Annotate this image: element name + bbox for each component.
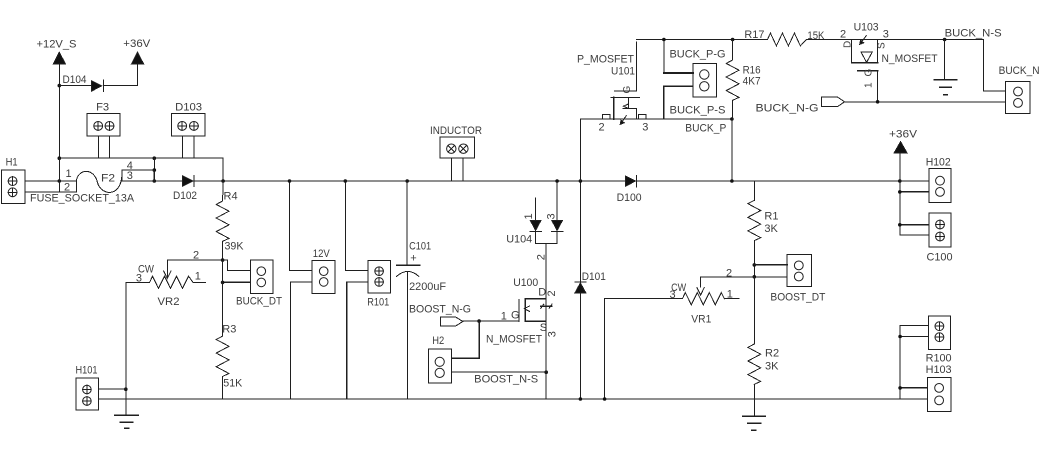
svg-text:BUCK_DT: BUCK_DT [236,295,282,307]
power +12V_S [37,39,77,64]
wire INDUCTOR pin1 [450,158,452,181]
wire BUCK_P down to bus [731,119,733,181]
wire F3 pin1 [98,136,100,158]
resistor R4 39K [216,181,244,260]
wire R100 pin1 [900,325,928,327]
wire fuse pin4 drop [153,158,155,181]
svg-text:BUCK_P: BUCK_P [685,122,726,134]
wire H1 pin2 [25,191,59,193]
svg-text:S: S [877,42,888,49]
svg-text:N_MOSFET: N_MOSFET [882,53,938,65]
svg-text:D101: D101 [582,271,606,283]
wire D102 cathode to main bus [194,180,290,182]
resistor R17 15K [744,29,845,46]
svg-text:+36V: +36V [889,128,918,140]
wire R1 to R2 [753,277,755,344]
svg-text:P_MOSFET: P_MOSFET [577,54,634,66]
node junction R4/BUCK_DT [221,258,225,262]
svg-text:2: 2 [536,254,548,260]
wire upper distribution line [59,158,223,181]
svg-text:3: 3 [546,213,558,219]
svg-text:BUCK_P-S: BUCK_P-S [670,105,726,117]
svg-text:BUCK_N: BUCK_N [999,65,1040,77]
svg-text:N_MOSFET: N_MOSFET [486,334,542,346]
wire BUCK_P-G pin1 riser [663,40,665,74]
svg-text:F2: F2 [101,173,115,185]
wire R101 column upper [345,181,368,271]
wire C100 pin2 elbow [900,234,929,236]
node junction H103 pin1 [898,386,902,390]
wire D101 column [579,181,581,399]
svg-text:3: 3 [642,122,648,134]
svg-text:H2: H2 [432,335,444,347]
wire H102 pin2 [900,191,929,193]
svg-text:R17: R17 [744,29,764,41]
svg-text:H101: H101 [76,365,98,377]
svg-text:R4: R4 [224,190,238,202]
svg-text:D100: D100 [617,192,642,204]
svg-text:D104: D104 [63,74,87,86]
svg-text:BUCK_N-G: BUCK_N-G [756,103,819,115]
wire H103 pin2 [900,398,927,400]
node junction U103 gate [876,100,880,104]
node junction at 59,181 [58,179,62,183]
wire U100 gate [479,320,519,322]
wire U101 source-drain line [580,118,732,120]
svg-text:D102: D102 [173,190,197,202]
svg-text:+36V: +36V [123,38,151,50]
svg-text:1: 1 [195,271,201,283]
svg-text:3K: 3K [764,223,778,235]
wire U100 source to bottom bus [545,321,547,399]
wire BUCK_N-S to BUCK_N pin1 [984,40,1006,92]
svg-text:H103: H103 [926,364,952,376]
ground symbol right [743,416,765,430]
node junction BUCK_P [730,117,734,121]
svg-text:G: G [864,69,875,77]
wire D104 anode [59,85,91,87]
svg-text:R3: R3 [222,324,236,336]
svg-text:D: D [538,286,546,298]
node junction VR1 pin3 at bus [603,397,607,401]
wire R4 to R3 [222,260,224,336]
resistor R1 3K [748,181,779,277]
node junction BOOST_DT pin1 [753,263,757,267]
node junction at 154,181 [153,179,157,183]
wire 12V pin2 to bottom bus [290,282,312,399]
wire fuse to D102 [154,180,183,182]
diode D101 [575,271,606,293]
diode D102 [173,175,197,202]
svg-text:BUCK_P-G: BUCK_P-G [670,49,726,61]
svg-text:BOOST_N-G: BOOST_N-G [409,304,471,316]
node junction +36V at bus [898,179,902,183]
svg-text:3: 3 [136,272,142,284]
wire VR1 wiper [701,277,755,287]
wire H102 pin1 [900,180,929,182]
wire fuse left leg [58,158,60,192]
connector H103 [927,377,951,411]
node junction BOOST_N-S [544,370,548,374]
node junction U104 pin3 at bus [555,179,559,183]
resistor R2 3K [748,344,779,416]
wire gate rail top [636,39,767,41]
wire ground lead right [944,40,946,80]
n-mosfet U100 [486,277,559,346]
svg-text:15K: 15K [807,30,825,42]
node junction R101 column at bus [344,179,348,183]
svg-text:2: 2 [840,29,846,41]
wire H2 pin2 BOOST_N-S [452,371,547,373]
potentiometer VR1 [605,282,739,325]
svg-text:4K7: 4K7 [743,76,761,88]
svg-text:H102: H102 [926,156,951,168]
node junction D101 at bottom bus [579,397,583,401]
svg-text:3: 3 [127,170,133,182]
svg-text:+12V_S: +12V_S [37,39,77,51]
wire main top bus [290,180,900,182]
svg-text:F3: F3 [96,101,109,113]
svg-text:+: + [410,252,416,264]
connector C100 [927,213,953,263]
node junction H102 pin2 [898,190,902,194]
node junction 12V column at bus [288,179,292,183]
wire U104 pin1 stub [535,198,537,220]
wire H1 pin1 to bus [25,180,59,182]
svg-text:2: 2 [546,290,558,296]
connector 12V [312,248,335,293]
wire D104 cathode to +36V [103,64,137,86]
svg-text:G: G [622,86,633,94]
svg-text:VR2: VR2 [158,296,180,308]
svg-text:G: G [511,310,520,322]
wire U103 source BUCK_N-S [888,39,984,41]
fuse F2 element [76,171,122,192]
wire F3 pin2 [108,136,110,158]
wire H101 pin1 [98,388,125,390]
resistor R3 51K [216,324,243,399]
node junction R4 top at bus [221,179,225,183]
svg-text:BOOST_DT: BOOST_DT [770,292,825,304]
svg-text:1: 1 [864,82,875,88]
node junction at 59,158 [58,156,62,160]
potentiometer VR2 [126,264,206,308]
net flag BUCK_N-G [756,97,845,115]
svg-text:12V: 12V [313,248,331,260]
svg-text:R1: R1 [764,210,778,222]
svg-text:3: 3 [883,29,889,41]
fuse F2 labels [30,160,135,205]
node junction VR1 pin2 [753,275,757,279]
wire H2 pin1 elbow [452,321,480,358]
node junction BUCK_DT pin2 [221,281,225,285]
wire BUCK_DT pin1 elbow [223,260,251,270]
svg-text:1: 1 [66,168,72,180]
svg-text:R2: R2 [765,348,779,360]
connector D103 [171,101,205,135]
ground symbol BUCK_N-S [934,80,957,95]
dual diode U104 [506,213,563,245]
node junction R100 pin2 [898,335,902,339]
svg-text:H1: H1 [6,156,18,168]
wire +36V column [899,153,901,235]
fuse F2 right terminal box [122,170,154,181]
wire BOOST_DT pin1 [754,264,787,266]
svg-text:3: 3 [547,331,559,337]
node junction at 154,158 [153,156,157,160]
node junction D101 at bus [579,179,583,183]
svg-text:1: 1 [523,213,535,219]
wire bottom bus [98,398,900,400]
svg-text:U103: U103 [854,22,879,34]
connector F3 [87,101,120,135]
connector BUCK_DT [236,260,282,308]
svg-text:39K: 39K [225,240,245,252]
svg-text:R100: R100 [926,353,952,365]
wire BUCK_DT pin2 [223,281,251,283]
svg-text:2: 2 [193,249,199,261]
svg-text:R101: R101 [367,296,389,308]
connector H1 [1,156,25,203]
power +36V left [123,38,151,64]
wire C101 column upper [406,181,408,265]
svg-text:2200uF: 2200uF [409,281,446,293]
node junction D104 tap [58,84,62,88]
ground symbol left [115,415,139,428]
wire +12V_S vertical [58,64,60,158]
svg-text:51K: 51K [223,377,243,389]
wire C100 pin1 [900,224,929,226]
wire flag to gate junction [463,320,479,322]
connector H101 [76,365,99,410]
svg-text:2: 2 [599,122,605,134]
node junction C101 column at bus [405,179,409,183]
wire U104 pin2 to U100 drain [545,243,547,298]
fuse F2 left terminal box [59,181,76,192]
net flag BOOST_N-G [409,304,471,326]
wire D103 pin2 [193,136,195,158]
connector INDUCTOR [430,125,482,158]
wire INDUCTOR pin2 [462,158,464,181]
connector R101 [367,261,390,309]
connector R100 [926,316,952,365]
wire BUCK_P-S pin2 elbow [664,86,693,119]
svg-text:2: 2 [726,267,732,279]
connector BUCK_P-G [670,49,726,97]
n-mosfet U103 [840,22,938,102]
svg-text:C101: C101 [409,240,431,252]
node junction H101 pin1 [124,387,128,391]
svg-text:3: 3 [670,289,676,301]
wire BUCK_P-G pin1 [664,72,693,74]
wire VR2 column to ground [125,389,127,415]
node junction BUCK_N-S ground tap [943,38,947,42]
wire D103 pin1 [181,136,183,158]
svg-text:BOOST_N-S: BOOST_N-S [474,374,538,386]
node junction BUCK_P at bus [730,179,734,183]
wire VR2 pin3 down [125,282,127,389]
wire U104 pin3 [556,181,558,220]
svg-text:U104: U104 [506,234,532,246]
svg-text:BUCK_N-S: BUCK_N-S [945,28,1002,40]
node junction C100 pin1 [898,223,902,227]
connector BUCK_N [999,65,1040,114]
p-mosfet U101 [577,42,648,134]
wire BOOST_DT pin2 [754,276,787,278]
wire R100 pin2 [900,336,928,338]
wire VR1 pin3 down to bus [604,299,606,399]
svg-text:U100: U100 [513,277,538,289]
svg-text:D103: D103 [175,101,202,113]
node junction gate/H2 [477,319,481,323]
svg-text:INDUCTOR: INDUCTOR [430,125,482,137]
resistor R16 4K7 [726,38,760,119]
node junction at 154,170 [153,168,157,172]
wire 12V column upper [290,181,312,271]
power +36V right [889,128,918,153]
wire H103 pin1 [900,387,927,389]
svg-text:1: 1 [727,288,733,300]
diode D100 [617,175,642,204]
svg-text:VR1: VR1 [691,313,711,325]
connector H102 [926,156,951,202]
wire R100-H103 column [899,326,901,400]
diode D104 [63,74,104,91]
capacitor C101 2200uF [397,240,447,399]
svg-text:3K: 3K [765,360,779,372]
wire R101 pin2 to bottom bus [347,282,368,399]
svg-text:C100: C100 [927,251,953,263]
wire U101 source drop to bus [579,119,581,181]
svg-text:U101: U101 [611,66,635,78]
connector BOOST_DT [770,255,825,304]
svg-text:FUSE_SOCKET_13A: FUSE_SOCKET_13A [30,193,135,205]
wire BUCK_N-G net [845,101,1006,103]
wire node2 to VR2 wiper [167,260,222,270]
connector H2 [428,335,451,383]
svg-text:D: D [843,41,854,48]
